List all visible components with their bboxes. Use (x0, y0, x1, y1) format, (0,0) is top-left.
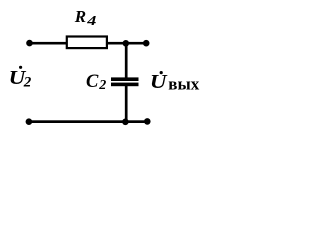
node: input bottom terminal (26, 118, 33, 125)
wire capacitor lower lead (125, 86, 128, 122)
svg-text:2: 2 (98, 78, 106, 93)
node A: top junction (123, 40, 130, 47)
wire junction to output terminal (126, 42, 146, 45)
svg-text:вых: вых (168, 75, 199, 94)
svg-text:2: 2 (23, 75, 32, 91)
resistor R4 (67, 37, 107, 49)
wire bottom (29, 120, 147, 123)
node: output bottom terminal (144, 118, 151, 125)
wire resistor to junction (107, 42, 127, 45)
svg-text:U: U (150, 70, 168, 92)
svg-text:C: C (86, 72, 99, 92)
svg-text:4: 4 (86, 13, 96, 29)
node: output top terminal (143, 40, 150, 47)
node: input top terminal (26, 40, 33, 47)
svg-text:R: R (74, 7, 86, 26)
wire top-left segment (30, 42, 68, 45)
node B: bottom junction (122, 119, 129, 126)
wire capacitor upper lead (125, 43, 128, 78)
capacitor C2 (111, 77, 139, 86)
